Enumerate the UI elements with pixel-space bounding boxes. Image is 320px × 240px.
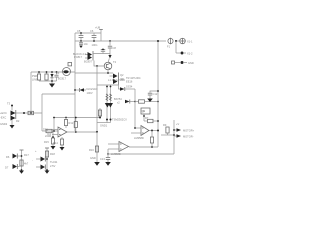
- connector X1-3: [172, 61, 194, 65]
- svg-text:C6: C6: [90, 29, 94, 33]
- resistor R18: [45, 151, 55, 157]
- wire box edge up x97: [96, 66, 98, 85]
- svg-text:SS34: SS34: [126, 85, 133, 89]
- wire lower filter rail y81: [39, 80, 57, 82]
- resistor R15: [44, 131, 55, 146]
- svg-text:GND: GND: [188, 61, 194, 65]
- capacitor C9: [93, 49, 110, 54]
- diode D4: [119, 85, 136, 92]
- wire vertical x31: [30, 72, 32, 113]
- svg-text:ON: ON: [141, 109, 145, 113]
- resistor R17: [20, 153, 29, 166]
- connector X1-1: [180, 38, 193, 44]
- inductor L2: [45, 129, 55, 138]
- ground OK1: [19, 169, 24, 174]
- resistor R9: [163, 123, 169, 135]
- svg-text:2.5V: 2.5V: [50, 164, 56, 168]
- ground T3: [10, 119, 20, 129]
- ground R13: [60, 147, 65, 151]
- wire bottom y155: [107, 153, 174, 155]
- wire T2 emitter stub: [107, 70, 109, 74]
- wire transformer top edge y85: [97, 84, 119, 86]
- ground x97: [90, 156, 100, 166]
- svg-text:IC2: IC2: [47, 132, 52, 136]
- wire y94: [42, 93, 75, 95]
- svg-text:TR 42TL004: TR 42TL004: [126, 76, 141, 80]
- svg-text:-: -: [32, 159, 33, 162]
- ground C11: [147, 99, 153, 103]
- resistor R12 fb: [74, 117, 77, 133]
- svg-text:GND2: GND2: [0, 122, 8, 126]
- wire vertical x135: [134, 89, 136, 128]
- wire vertical x158: [157, 40, 159, 147]
- resistor R1: [37, 71, 40, 81]
- capacitor C13: [100, 154, 110, 162]
- svg-text:R15: R15: [44, 140, 49, 144]
- svg-text:10n: 10n: [84, 42, 89, 46]
- jumper JP1: [141, 108, 150, 121]
- svg-text:100V: 100V: [87, 91, 93, 95]
- svg-text:R2: R2: [16, 119, 20, 123]
- label IC1B: [134, 136, 144, 140]
- diode D8: [32, 157, 48, 163]
- capacitor C3 with ground: [79, 41, 88, 46]
- svg-text:C12: C12: [153, 92, 158, 96]
- svg-text:C13: C13: [100, 157, 105, 161]
- svg-text:R9: R9: [163, 123, 167, 127]
- svg-text:BAT54: BAT54: [114, 97, 122, 101]
- op-amp IC1A: [108, 142, 129, 152]
- wire IC1B out: [149, 130, 159, 132]
- svg-text:100n: 100n: [92, 43, 98, 47]
- wire top rail VCC y41: [75, 40, 179, 42]
- svg-text:R12: R12: [69, 121, 74, 125]
- svg-text:R4: R4: [56, 71, 60, 75]
- capacitor C10: [108, 40, 117, 53]
- wire vertical x174: [173, 120, 175, 154]
- diode D3 cluster: [105, 103, 113, 108]
- svg-text:R18: R18: [50, 152, 55, 156]
- svg-text:C5: C5: [77, 29, 81, 33]
- mosfet Q2: [110, 73, 125, 85]
- svg-text:R7: R7: [145, 116, 149, 120]
- pin arrow OUT1: [173, 128, 195, 132]
- resistor R10: [28, 111, 34, 114]
- wire y101.5 branch: [135, 101, 139, 103]
- svg-text:TSM2302CX: TSM2302CX: [112, 118, 127, 122]
- wire y135: [161, 134, 175, 136]
- label D3: [114, 97, 122, 105]
- svg-text:-EXC: -EXC: [0, 116, 6, 120]
- resistor R6: [139, 100, 159, 103]
- net stub label: [141, 109, 145, 113]
- wire top rail y33: [75, 32, 101, 34]
- wire IC2 out: [67, 131, 97, 133]
- op-amp IC1B: [131, 126, 149, 136]
- svg-text:BC817: BC817: [58, 77, 66, 81]
- svg-text:Q2: Q2: [120, 73, 124, 77]
- wire vertical x42: [41, 94, 43, 131]
- svg-text:L1 4.7uH SMD: L1 4.7uH SMD: [108, 78, 125, 82]
- svg-text:TL431: TL431: [50, 160, 58, 164]
- reference IC3: [35, 148, 49, 170]
- svg-text:R16: R16: [89, 148, 94, 152]
- wire x31 joins: [30, 112, 32, 114]
- wire y131: [42, 127, 58, 131]
- svg-text:+V: +V: [176, 122, 180, 126]
- wire vertical x108: [107, 149, 109, 155]
- diode D1: [50, 71, 53, 81]
- node y113: [23, 112, 25, 114]
- node x176: [175, 40, 177, 42]
- label top: [126, 76, 141, 84]
- wire y113: [15, 112, 42, 114]
- node x66: [65, 117, 67, 119]
- ground C13: [105, 162, 111, 166]
- capacitor C2: [90, 29, 96, 42]
- resistor R11: [64, 118, 73, 129]
- svg-text:R14: R14: [53, 141, 58, 145]
- svg-text:GND1: GND1: [100, 124, 108, 128]
- svg-text:R17: R17: [24, 153, 29, 157]
- diode D9: [36, 160, 58, 170]
- wire gate y73: [75, 72, 113, 74]
- ground below C3: [79, 46, 83, 48]
- wire winding bottom y122: [97, 122, 111, 124]
- svg-text:LM358D: LM358D: [134, 136, 144, 140]
- resistor R16: [89, 131, 99, 152]
- wire left rail y72: [31, 71, 75, 73]
- svg-text:+UB: +UB: [95, 26, 100, 30]
- pin arrow OUT2: [174, 134, 194, 138]
- svg-text:D7: D7: [5, 166, 9, 170]
- wire Q2 drain to box: [118, 84, 120, 87]
- wire x176 down: [175, 41, 177, 53]
- label input filter: [32, 74, 38, 82]
- ground R15: [51, 146, 56, 150]
- svg-text:EE16: EE16: [126, 80, 133, 84]
- winding W1: [106, 85, 108, 123]
- svg-text:X1-1: X1-1: [187, 40, 193, 44]
- ground IC3: [45, 169, 50, 174]
- wire vertical x54: [53, 117, 55, 131]
- svg-text:PC817: PC817: [74, 55, 82, 59]
- wire main HV vertical x75: [74, 33, 76, 131]
- op-amp IC2: [52, 127, 67, 137]
- optocoupler T3: [7, 102, 16, 121]
- resistor R2: [45, 71, 48, 81]
- svg-text:BC807: BC807: [84, 60, 92, 64]
- label IC1A: [111, 152, 121, 156]
- resistor R13: [53, 137, 64, 147]
- label coil: [108, 78, 125, 82]
- resistor R7: [144, 116, 159, 123]
- wire Q1 collector elbow: [94, 61, 104, 67]
- wire vertical x101: [95, 26, 103, 42]
- diode D5: [74, 87, 97, 95]
- capacitor C4: [54, 71, 58, 81]
- capacitor C1: [77, 29, 83, 42]
- mosfet Q1: [73, 51, 93, 64]
- svg-text:D2 ES1D: D2 ES1D: [87, 87, 98, 91]
- diode D7: [5, 164, 20, 170]
- svg-text:+EXC: +EXC: [0, 111, 7, 115]
- svg-text:MOTOR+: MOTOR+: [183, 129, 195, 133]
- resistor R8: [150, 131, 153, 149]
- capacitor C11 with ground: [148, 90, 159, 98]
- diode D10: [125, 100, 136, 104]
- winding W2: [110, 85, 112, 123]
- svg-text:D6: D6: [6, 155, 10, 159]
- wire transformer left x97: [96, 85, 98, 162]
- diode D2 vertical arrow: [108, 54, 111, 63]
- fuse F1: [167, 38, 173, 49]
- wire y117: [54, 117, 99, 119]
- svg-text:4k7: 4k7: [24, 162, 29, 166]
- transistor T2: [104, 60, 116, 70]
- svg-text:MOTOR-: MOTOR-: [183, 135, 194, 139]
- ground filter: [49, 80, 55, 87]
- svg-text:C8: C8: [113, 46, 117, 50]
- wire y147: [129, 146, 158, 148]
- optocoupler OK1: [6, 150, 24, 170]
- svg-text:GND: GND: [90, 156, 96, 160]
- transistor T1: [56, 63, 72, 81]
- svg-text:X1-2: X1-2: [187, 52, 193, 56]
- winding W3: [98, 108, 101, 119]
- connector X1-2: [176, 52, 193, 56]
